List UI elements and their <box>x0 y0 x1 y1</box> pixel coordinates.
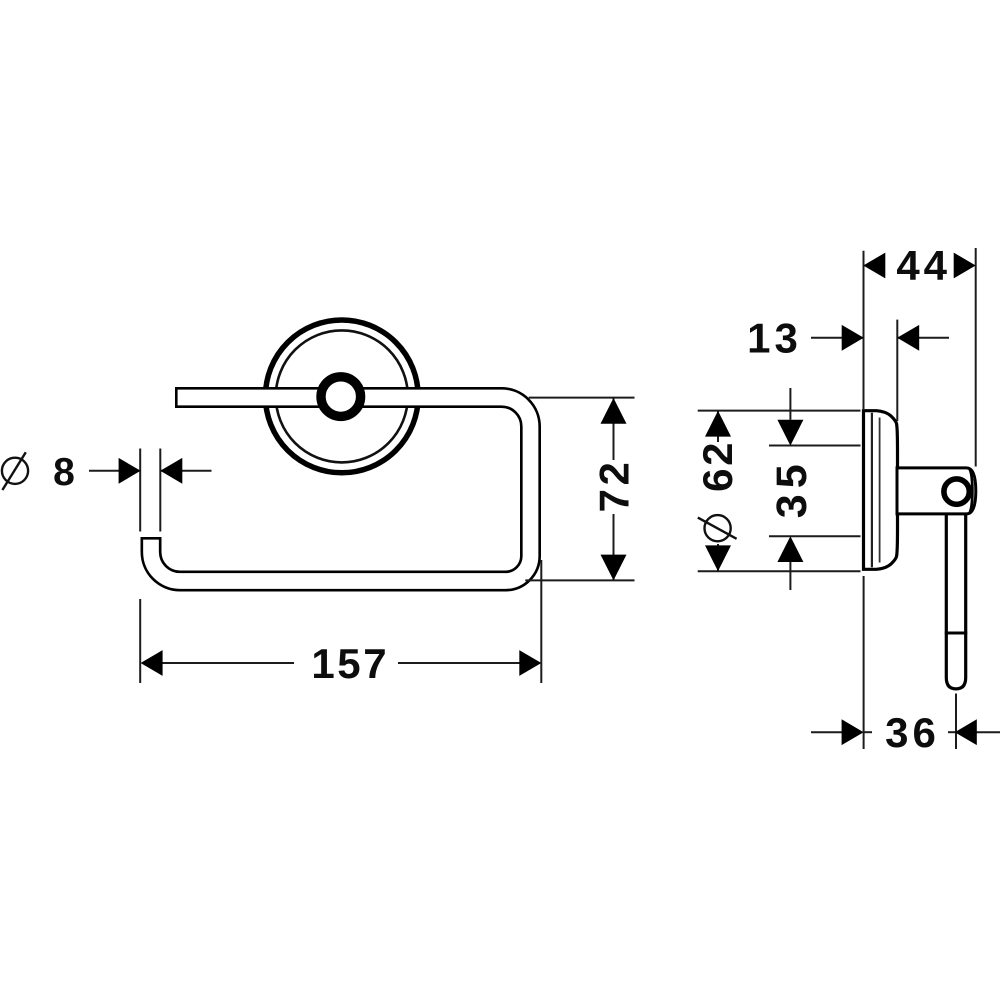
dim 44: extension lines <box>864 248 976 467</box>
dim Ø8: arrows <box>119 458 141 484</box>
dim 36: arrows <box>842 719 864 745</box>
dim 13: arrows <box>842 325 864 351</box>
dim 36: lines <box>811 576 1000 749</box>
roll-holder tube outline (black silhouette) <box>151 398 531 582</box>
screw head circle <box>944 479 969 504</box>
svg-text:13: 13 <box>747 315 802 362</box>
dim Ø8: leader lines <box>89 449 212 532</box>
hub (center boss) on top of bar <box>321 377 361 417</box>
wall plate profile (side view) <box>864 411 898 570</box>
dim 157: arrows <box>141 650 163 676</box>
wall rosette outer circle (front view) <box>265 320 418 473</box>
dim Ø62: diameter symbol (rotated) <box>698 515 737 541</box>
svg-text:35: 35 <box>768 458 816 518</box>
hanging bar (drawn first, post overlaps its top) <box>946 505 965 689</box>
dim 157: extension lines <box>140 560 541 683</box>
roll-holder tube interior (white inset) <box>151 398 531 582</box>
svg-text:62: 62 <box>694 440 741 492</box>
dim 72: arrows <box>601 398 627 424</box>
dim 72: extension lines <box>525 398 634 581</box>
svg-text:72: 72 <box>590 459 637 513</box>
svg-text:44: 44 <box>896 242 951 289</box>
svg-text:157: 157 <box>311 640 389 687</box>
dim 13: lines <box>811 320 949 421</box>
wall rosette inner circle (front view) <box>276 330 408 462</box>
dim 44: arrows <box>863 253 885 279</box>
svg-text:8: 8 <box>53 451 75 494</box>
wall plate second rim line <box>879 418 881 563</box>
dim 35: extension lines <box>769 388 861 590</box>
post end-cap seam arc <box>970 470 973 513</box>
dim Ø62: extension lines <box>698 411 861 572</box>
hanging bar seam line <box>945 632 967 635</box>
post (horizontal pivot boss) <box>897 468 976 514</box>
dim 35: arrows (outside, pointing inward) <box>777 420 803 446</box>
svg-text:36: 36 <box>885 709 940 756</box>
dim Ø8: diameter symbol <box>2 452 28 490</box>
wall plate inner rim line <box>871 413 873 568</box>
dim Ø62: arrows <box>705 411 731 437</box>
